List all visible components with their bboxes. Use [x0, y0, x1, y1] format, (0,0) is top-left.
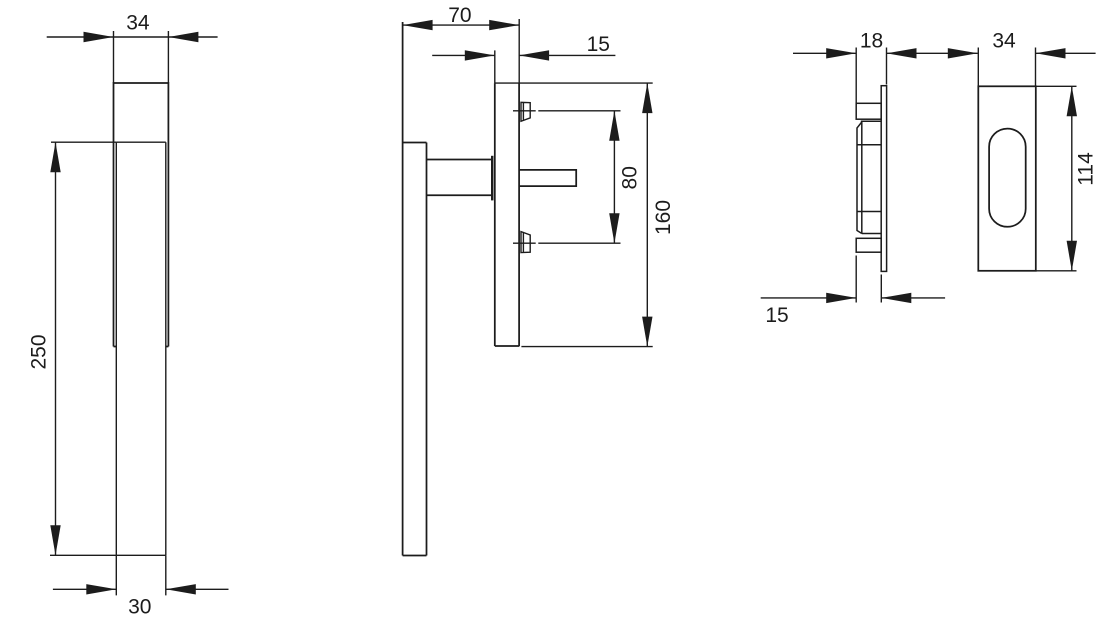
cup inner wall [861, 121, 863, 233]
face plate [881, 86, 886, 272]
plate bottom edge + 160 extension [495, 345, 520, 347]
cup top edge [861, 120, 881, 122]
collar [491, 156, 493, 201]
plate front (30 wide) [116, 142, 166, 555]
svg-text:30: 30 [128, 596, 151, 619]
svg-text:80: 80 [618, 166, 641, 189]
dimension 80 [613, 111, 615, 243]
dimension 15 (bottom) [761, 297, 945, 299]
svg-text:15: 15 [765, 304, 788, 327]
bottom screw [521, 232, 530, 253]
cup outer wall with chamfers [857, 122, 862, 234]
svg-text:18: 18 [860, 30, 883, 53]
dimension 114 [1036, 86, 1077, 270]
svg-text:114: 114 [1075, 152, 1098, 186]
dimension 18 [793, 52, 978, 54]
dimension 250 (left view) [50, 142, 116, 555]
top lug [856, 103, 881, 119]
grip outline (34 wide) [114, 83, 169, 347]
svg-text:15: 15 [587, 33, 610, 56]
15 left extension [494, 50, 496, 83]
svg-text:70: 70 [448, 4, 471, 27]
cup mid line top [857, 144, 881, 146]
neck [427, 160, 492, 196]
top screw [521, 102, 530, 121]
plate side [495, 83, 519, 346]
dimension 70 [403, 24, 520, 26]
top screw axis line [513, 110, 621, 112]
bottom screw axis line [513, 242, 621, 244]
dimension 34 (left view) [47, 31, 218, 83]
grip bottom jog left [114, 346, 117, 348]
plate top edge + 160 extension [495, 82, 653, 84]
cup bottom edge [862, 233, 881, 235]
34 extensions [978, 48, 1035, 87]
bottom lug [856, 238, 881, 252]
18 extensions [856, 48, 886, 104]
svg-text:250: 250 [28, 334, 51, 369]
dimension 160 [646, 83, 648, 347]
dimension 30 (left view) [53, 555, 229, 595]
grip bottom jog right [166, 346, 169, 348]
dimension 34 (right) [948, 48, 978, 58]
svg-text:34: 34 [126, 12, 150, 35]
cup mid line bottom [857, 211, 881, 213]
lever bar [403, 22, 427, 556]
pull plate front [978, 86, 1036, 270]
70 right extension [518, 19, 520, 83]
dimension 15 (middle) [432, 54, 615, 56]
15 bottom extensions [856, 256, 881, 303]
spindle [519, 170, 576, 186]
svg-text:34: 34 [992, 30, 1016, 53]
svg-text:160: 160 [652, 200, 675, 235]
finger slot stadium [989, 129, 1026, 227]
